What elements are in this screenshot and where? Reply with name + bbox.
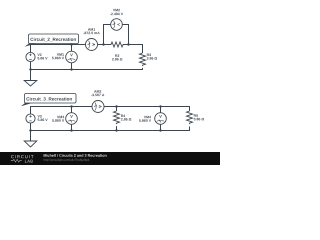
label VM1 value [52,53,64,59]
label AM2 value [91,90,104,96]
voltage source V3 [26,114,35,123]
wire VM1 stubs [71,45,73,70]
label AM1 value [83,28,99,34]
label R4 value [121,115,131,121]
label VM2 value [110,9,123,15]
resistor R4 [114,111,120,124]
voltmeter VM4 [155,113,167,125]
watermark title text [44,154,107,161]
voltmeter VM3 [66,113,78,125]
label Circuit_2_Recreation [24,34,78,47]
watermark bar [0,152,220,165]
wire bottom rail circuit 2 [31,62,143,70]
wire VM4 stubs [160,107,162,131]
resistor R3 [140,53,146,66]
label Circuit_3_Recreation [21,94,76,107]
ground circuit 2 [24,70,37,87]
circuitlab logo [11,155,34,163]
junction dots circuit 3 [29,105,161,131]
junction dots circuit 2 [29,43,129,70]
wire top rail circuit 2 [31,45,143,54]
ammeter AM1 [86,39,98,51]
label R3 value [147,54,157,60]
wire VM3 stubs [71,107,73,131]
label VM4 value [139,116,151,122]
wire VM2 branch [104,25,129,45]
voltage source V2 [26,52,35,61]
wire bottom rail circuit 3 [31,123,190,131]
resistor R5 [187,111,193,124]
voltmeter VM1 [66,51,78,63]
wire R4 stubs [116,107,118,131]
ammeter AM2 [92,101,104,113]
ground circuit 3 [24,131,37,148]
wire top rail circuit 3 [31,107,190,115]
label R2 value [112,54,122,60]
label V3 value [38,115,48,121]
resistor R2 [110,42,125,47]
label R5 value [194,114,204,120]
label V2 value [37,53,47,59]
voltmeter VM2 [111,19,123,31]
label VM3 value [52,116,64,122]
